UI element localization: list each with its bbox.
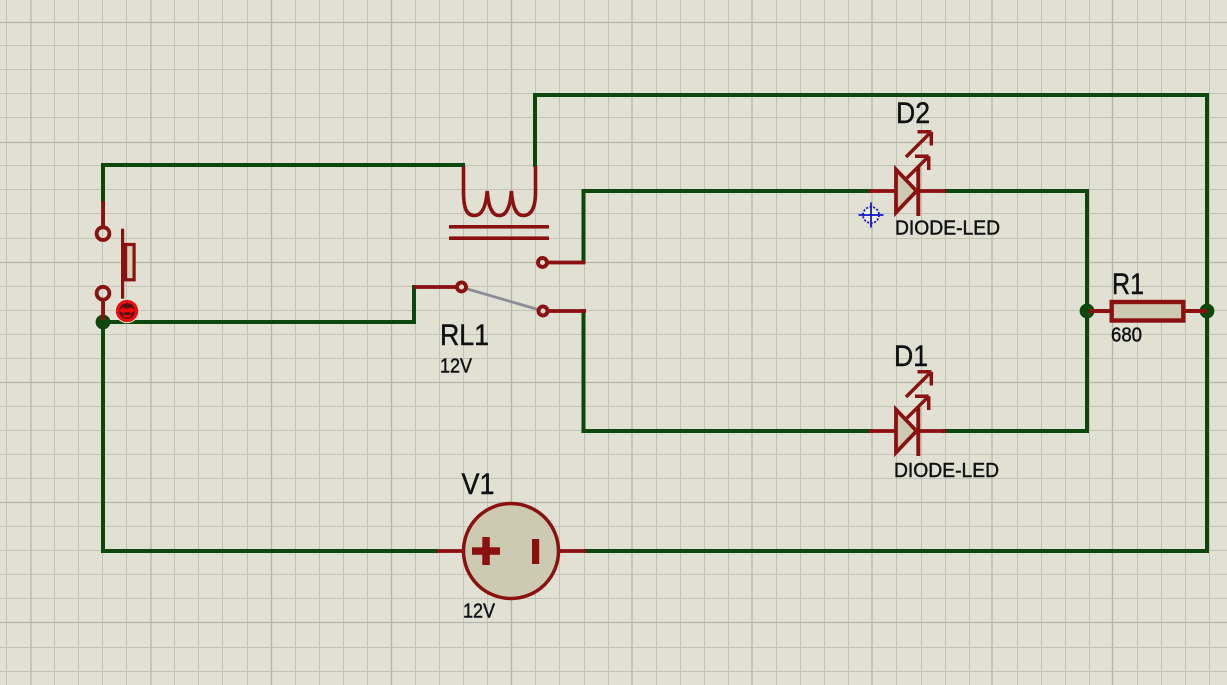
wire D1 left horizontal [582,429,873,433]
V1 circle body [464,504,559,599]
wire relay throw2 vertical [582,309,586,433]
wire bottom right horizontal [584,549,1209,553]
svg-text:DIODE-LED: DIODE-LED [895,218,1000,240]
wire inner right vertical [1085,189,1089,433]
wire relay NO vertical [582,189,586,264]
D2 emission arrows [905,132,932,181]
junction node R1 left [1080,304,1095,319]
pushbutton bottom stub [101,300,105,320]
D1 anode lead [869,429,897,433]
battery V1 [437,504,586,599]
D2 cathode lead [918,189,946,193]
svg-text:R1: R1 [1112,268,1144,301]
svg-text:D2: D2 [896,97,930,130]
relay NO contact stub [548,261,585,265]
D1 emission arrows [905,372,932,421]
relay common stub [414,285,456,289]
pushbutton plunger rectangle [126,245,135,280]
wire left vertical lower [101,320,105,553]
V1 minus terminal bar [532,539,539,564]
R1 right lead [1183,309,1207,313]
relay blade [464,288,538,310]
D1 cathode lead [918,429,946,433]
D1 cathode bar [916,406,920,456]
svg-text:12V: 12V [440,356,473,378]
wire left top horizontal [101,163,465,167]
relay core bar 2 [449,236,549,240]
relay RL1 coil [464,166,536,216]
relay NO contact circle [538,258,547,267]
D2 anode lead [869,189,897,193]
pushbutton terminal circle top [97,227,110,240]
svg-text:V1: V1 [462,468,495,501]
D2 anode triangle [896,170,917,213]
R1 body [1112,302,1184,321]
svg-text:D1: D1 [894,340,928,373]
D1 anode triangle [896,410,917,453]
pushbutton red state marker [115,299,139,323]
pushbutton actuator bar [121,229,124,299]
relay throw2 contact circle [539,307,548,316]
wire coil top vertical [533,93,537,167]
svg-text:RL1: RL1 [440,319,489,352]
D2 cathode bar [916,166,920,216]
svg-text:DIODE-LED: DIODE-LED [894,460,999,482]
blue origin crosshair [859,203,884,228]
V1 right lead [557,549,586,553]
svg-text:12V: 12V [463,601,496,623]
junction node R1 right [1200,304,1215,319]
svg-text:680: 680 [1111,325,1142,347]
diode-LED D2 [869,132,946,216]
relay core bar 1 [449,225,549,229]
V1 left lead [437,549,465,553]
wire button row horizontal [101,320,416,324]
wire D1 right horizontal [942,429,1089,433]
pushbutton top stub [101,201,105,228]
wire left vertical upper [101,163,105,203]
V1 plus sign [472,547,500,555]
R1 left lead [1089,309,1113,313]
relay common contact circle [457,283,466,292]
wire bottom left horizontal [101,549,438,553]
wire D2 left horizontal [582,189,872,193]
wire D2 right horizontal [943,189,1089,193]
wire relay common vertical [412,285,416,324]
wire right vertical [1205,93,1209,553]
wire top horizontal [533,93,1209,97]
diode-LED D1 [869,372,946,456]
resistor R1 [1089,302,1207,321]
relay throw2 stub [549,309,586,313]
pushbutton terminal circle bottom [97,287,110,300]
junction node button/left [96,315,111,330]
